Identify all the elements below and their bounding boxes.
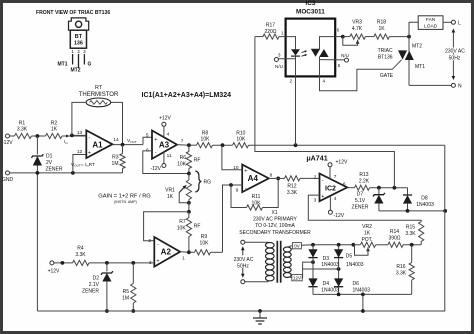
svg-text:D6: D6	[353, 281, 360, 287]
svg-text:-12V: -12V	[334, 213, 345, 219]
svg-text:R17: R17	[266, 22, 275, 28]
svg-text:R14: R14	[390, 229, 399, 235]
svg-text:8: 8	[270, 172, 273, 178]
svg-text:50Hz: 50Hz	[237, 263, 249, 269]
svg-text:+12V: +12V	[336, 159, 348, 165]
svg-text:VR3: VR3	[352, 19, 362, 25]
svg-text:10K: 10K	[200, 241, 210, 247]
svg-text:5: 5	[146, 132, 149, 138]
svg-text:MOC3011: MOC3011	[296, 8, 325, 15]
svg-text:-: -	[245, 186, 247, 192]
svg-text:+12V: +12V	[48, 268, 60, 274]
svg-text:230V AC PRIMARY: 230V AC PRIMARY	[253, 217, 297, 223]
svg-text:TO 0-12V, 100mA: TO 0-12V, 100mA	[255, 223, 295, 229]
svg-text:D8: D8	[421, 195, 428, 201]
svg-text:D4: D4	[323, 281, 330, 287]
svg-text:-: -	[155, 150, 157, 156]
svg-text:1N4003: 1N4003	[416, 202, 434, 208]
svg-text:G: G	[88, 62, 92, 68]
svg-text:VR1: VR1	[165, 187, 175, 193]
svg-text:D2: D2	[93, 275, 100, 281]
svg-text:2.2K: 2.2K	[359, 179, 370, 185]
svg-text:1K: 1K	[378, 26, 385, 32]
svg-text:A2: A2	[161, 248, 172, 257]
svg-text:1K: 1K	[364, 231, 371, 237]
svg-text:3.3K: 3.3K	[405, 231, 416, 237]
svg-text:390Ω: 390Ω	[388, 236, 400, 242]
svg-text:1N4003: 1N4003	[321, 288, 339, 294]
svg-text:FRONT VIEW OF TRIAC BT136: FRONT VIEW OF TRIAC BT136	[36, 10, 110, 16]
svg-text:50Hz: 50Hz	[449, 55, 461, 61]
svg-text:TRIAC: TRIAC	[378, 48, 393, 54]
svg-text:3: 3	[83, 49, 86, 54]
svg-text:R4: R4	[77, 245, 84, 251]
svg-text:SECONDARY TRANSFORMER: SECONDARY TRANSFORMER	[239, 230, 311, 236]
svg-text:-: -	[88, 134, 90, 140]
svg-text:N: N	[458, 83, 462, 89]
svg-text:ZENER: ZENER	[82, 288, 99, 294]
svg-text:2.1V: 2.1V	[89, 282, 100, 288]
svg-text:1N4003: 1N4003	[321, 262, 339, 268]
svg-text:12V: 12V	[293, 276, 302, 281]
svg-text:MT1: MT1	[58, 62, 68, 68]
svg-text:4.7K: 4.7K	[352, 26, 363, 32]
svg-text:R15: R15	[406, 225, 415, 231]
svg-text:X1: X1	[271, 210, 277, 216]
svg-text:10K: 10K	[177, 226, 187, 232]
svg-text:BT: BT	[75, 34, 83, 40]
svg-text:11: 11	[167, 153, 172, 159]
svg-text:6: 6	[343, 181, 346, 187]
svg-text:136: 136	[74, 41, 83, 47]
svg-text:R3: R3	[112, 155, 119, 161]
svg-text:GAIN = 1+2 RF / RG: GAIN = 1+2 RF / RG	[98, 194, 150, 200]
svg-text:A1: A1	[92, 140, 103, 149]
svg-text:RG: RG	[204, 179, 212, 185]
svg-text:2: 2	[148, 238, 151, 244]
svg-text:R11: R11	[252, 194, 261, 200]
svg-text:10K: 10K	[201, 136, 211, 142]
svg-text:RF: RF	[194, 223, 201, 229]
svg-text:10K: 10K	[236, 136, 246, 142]
svg-text:+: +	[154, 137, 157, 143]
svg-text:D1: D1	[46, 154, 53, 160]
svg-text:9: 9	[236, 187, 239, 193]
svg-text:BT136: BT136	[378, 55, 393, 61]
svg-text:LOAD: LOAD	[424, 23, 438, 29]
svg-text:4: 4	[334, 196, 337, 202]
svg-text:7: 7	[181, 138, 184, 144]
svg-text:230V AC: 230V AC	[234, 257, 254, 263]
svg-text:+: +	[156, 258, 159, 264]
svg-text:13: 13	[77, 130, 83, 136]
svg-text:1K: 1K	[51, 127, 58, 133]
svg-text:IC1(A1+A2+A3+A4)=LM324: IC1(A1+A2+A3+A4)=LM324	[142, 92, 232, 99]
svg-text:2V: 2V	[46, 160, 53, 166]
svg-text:2: 2	[289, 78, 292, 83]
svg-text:R7: R7	[179, 219, 186, 225]
svg-text:1M: 1M	[112, 161, 119, 167]
svg-text:10K: 10K	[177, 161, 187, 167]
svg-text:VR2: VR2	[362, 224, 372, 230]
svg-text:μA741: μA741	[306, 154, 327, 162]
svg-text:FAN: FAN	[426, 17, 436, 23]
svg-text:GATE: GATE	[380, 73, 394, 79]
svg-text:12: 12	[77, 149, 83, 155]
svg-text:+: +	[88, 151, 91, 157]
svg-text:D5: D5	[346, 254, 353, 260]
svg-text:3.3K: 3.3K	[287, 190, 298, 196]
svg-text:D3: D3	[323, 256, 330, 262]
svg-text:3.3K: 3.3K	[75, 252, 86, 258]
svg-text:N/U: N/U	[341, 53, 349, 58]
svg-text:+12V: +12V	[159, 116, 171, 122]
svg-text:1: 1	[182, 255, 185, 261]
svg-text:POT.: POT.	[361, 237, 372, 243]
svg-text:-: -	[322, 177, 324, 183]
svg-text:A3: A3	[159, 140, 170, 149]
svg-text:3.3K: 3.3K	[396, 270, 407, 276]
svg-text:4: 4	[323, 78, 326, 83]
svg-text:1M: 1M	[122, 295, 129, 301]
svg-text:+: +	[244, 168, 247, 174]
svg-text:3: 3	[314, 197, 317, 203]
svg-text:14: 14	[113, 137, 119, 143]
svg-text:RT: RT	[95, 85, 103, 91]
svg-text:R13: R13	[359, 172, 368, 178]
svg-text:N/U: N/U	[275, 64, 283, 69]
svg-text:(INSTN. AMP): (INSTN. AMP)	[114, 200, 137, 204]
svg-text:5.1V: 5.1V	[355, 198, 366, 204]
svg-text:ZENER: ZENER	[46, 167, 63, 173]
svg-text:MT2: MT2	[71, 68, 81, 74]
svg-text:R12: R12	[287, 183, 296, 189]
svg-text:GND: GND	[2, 177, 14, 183]
svg-text:ZENER: ZENER	[352, 204, 369, 210]
svg-text:2: 2	[77, 49, 80, 54]
svg-text:R9: R9	[201, 234, 208, 240]
svg-text:+: +	[321, 194, 324, 200]
svg-text:IC2: IC2	[325, 185, 336, 192]
svg-text:-12V: -12V	[150, 166, 161, 172]
svg-text:1K: 1K	[167, 194, 174, 200]
svg-text:R18: R18	[377, 19, 386, 25]
svg-text:R16: R16	[396, 264, 405, 270]
svg-text:-: -	[157, 241, 159, 247]
svg-text:1: 1	[71, 49, 74, 54]
svg-text:A4: A4	[248, 174, 259, 183]
svg-text:D7: D7	[357, 191, 364, 197]
svg-text:230V AC: 230V AC	[445, 48, 465, 54]
svg-text:MT2: MT2	[412, 43, 422, 49]
svg-text:7: 7	[334, 174, 337, 180]
svg-text:1N4003: 1N4003	[346, 262, 364, 268]
svg-text:IC3: IC3	[305, 0, 315, 7]
svg-text:THERMISTOR: THERMISTOR	[79, 92, 119, 98]
svg-text:2: 2	[314, 174, 317, 180]
svg-text:R6: R6	[180, 155, 187, 161]
svg-text:0V: 0V	[294, 244, 301, 249]
svg-text:Iin: Iin	[64, 139, 68, 145]
svg-text:-12V: -12V	[2, 140, 13, 146]
svg-text:1N4003: 1N4003	[353, 288, 371, 294]
svg-text:10K: 10K	[252, 200, 262, 206]
svg-text:4: 4	[167, 131, 170, 137]
svg-text:R5: R5	[123, 289, 130, 295]
svg-text:RF: RF	[194, 158, 201, 164]
svg-text:3.3K: 3.3K	[17, 127, 28, 133]
svg-text:MT1: MT1	[415, 64, 425, 70]
svg-text:L: L	[458, 20, 461, 26]
